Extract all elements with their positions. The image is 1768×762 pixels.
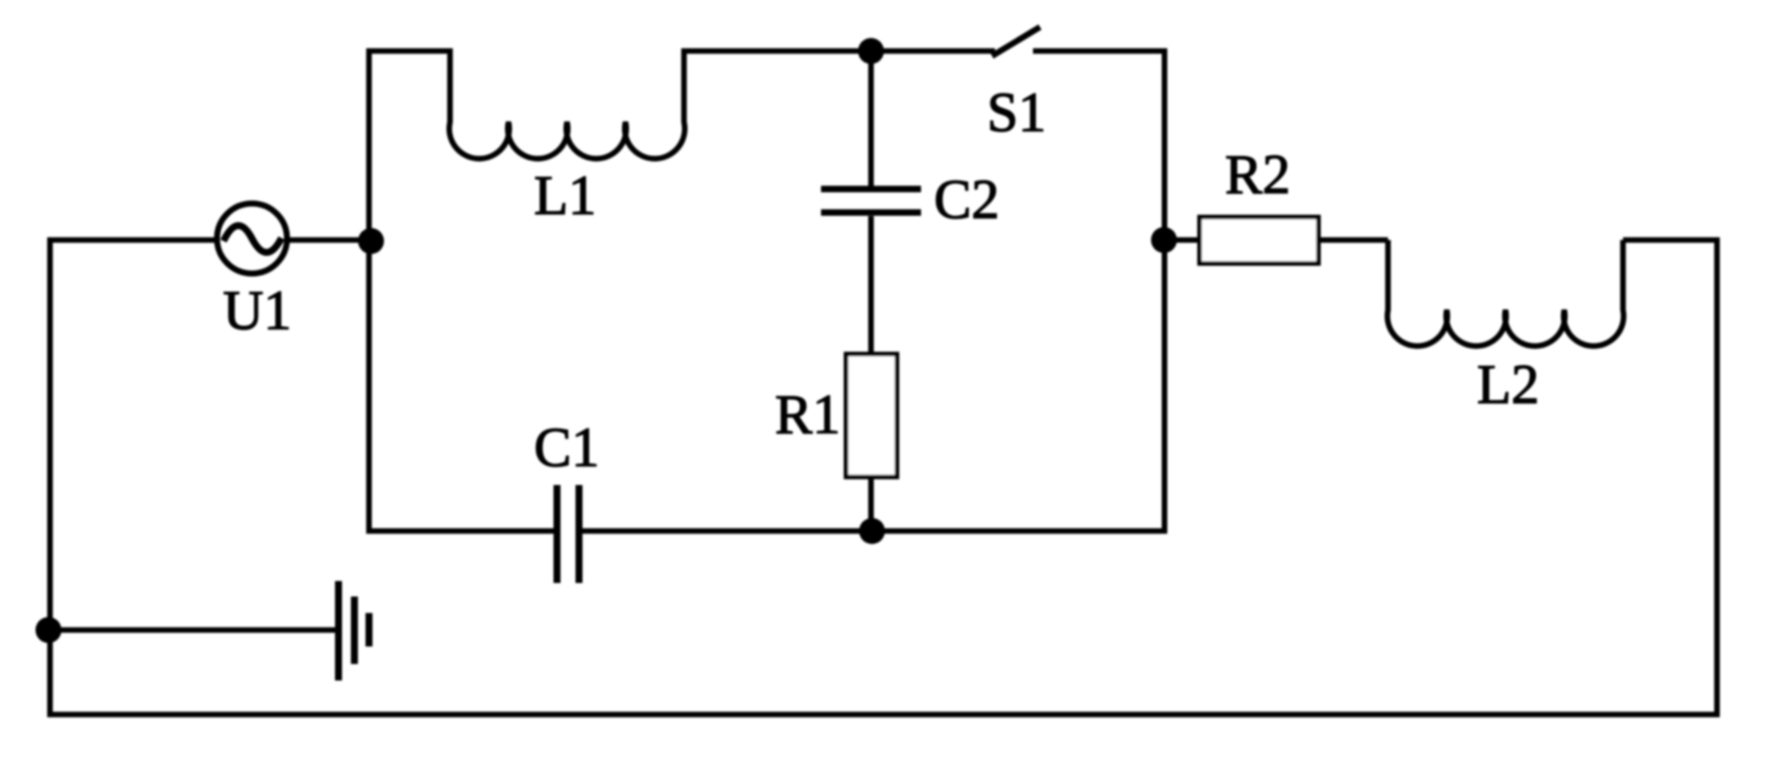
svg-text:C2: C2 xyxy=(934,169,999,231)
svg-text:R1: R1 xyxy=(775,384,840,446)
svg-text:L1: L1 xyxy=(534,165,596,227)
svg-text:U1: U1 xyxy=(223,280,291,342)
svg-text:C1: C1 xyxy=(534,417,599,479)
svg-text:R2: R2 xyxy=(1225,144,1290,206)
svg-text:L2: L2 xyxy=(1477,354,1539,416)
svg-text:S1: S1 xyxy=(987,82,1046,144)
